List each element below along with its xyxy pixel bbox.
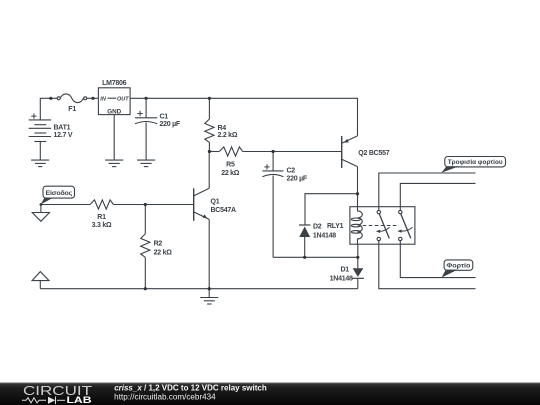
- svg-text:1N4148: 1N4148: [330, 275, 353, 282]
- resistor R2: [141, 205, 150, 289]
- transistor Q2 BC557: [342, 136, 358, 168]
- junction R4 top rail: [208, 97, 211, 100]
- svg-text:F1: F1: [68, 106, 76, 113]
- junction C1 top rail: [145, 97, 148, 100]
- CircuitLab logo: [22, 383, 92, 405]
- diode D1 1N4148: [352, 268, 364, 288]
- ground (LM7806): [105, 160, 123, 167]
- svg-text:http://circuitlab.com/cebr434: http://circuitlab.com/cebr434: [114, 393, 216, 402]
- svg-text:BAT1: BAT1: [54, 124, 71, 131]
- wire GND pin of LM7806: [113, 115, 115, 161]
- svg-text:R4: R4: [218, 125, 227, 132]
- junction fuse left: [49, 97, 52, 100]
- svg-text:D1: D1: [340, 266, 349, 273]
- svg-text:criss_x / 1,2 VDC to 12 VDC re: criss_x / 1,2 VDC to 12 VDC relay switch: [114, 384, 267, 393]
- relay dashed link: [363, 225, 399, 227]
- wire Q1 collector up to R4/R5 node: [208, 152, 210, 189]
- svg-text:220 µF: 220 µF: [287, 176, 308, 183]
- relay coil: [351, 194, 362, 245]
- svg-text:Είσοδος: Είσοδος: [46, 190, 73, 197]
- svg-text:3.3 kΩ: 3.3 kΩ: [92, 222, 112, 229]
- svg-text:LM7806: LM7806: [102, 80, 127, 87]
- wire C2 bottom to D1 node: [273, 256, 358, 258]
- wire Q2 collector down to node: [357, 167, 359, 194]
- node input terminal: [40, 203, 43, 206]
- regulator U1 LM7806 box: [98, 88, 130, 115]
- fuse F1: [57, 94, 86, 103]
- wire relay top-left contact to supply flag: [379, 173, 476, 210]
- wire R1 to Q1 base: [113, 204, 193, 206]
- svg-text:22 kΩ: 22 kΩ: [154, 250, 173, 257]
- svg-text:Φορτίο: Φορτίο: [446, 263, 470, 270]
- svg-text:Q2 BC557: Q2 BC557: [358, 150, 389, 157]
- node Τροφισία φορτίου flag: [441, 157, 505, 173]
- svg-text:D2: D2: [313, 224, 322, 231]
- wire coil bottom to D1: [357, 244, 359, 268]
- svg-text:Τροφισία φορτίου: Τροφισία φορτίου: [448, 159, 503, 166]
- svg-text:OUT: OUT: [117, 97, 129, 103]
- svg-text:R2: R2: [154, 240, 163, 247]
- resistor R4: [205, 98, 214, 151]
- junction Q2 collector / D2 / relay coil: [356, 192, 359, 195]
- ground triangle (input): [32, 205, 49, 222]
- svg-text:12.7 V: 12.7 V: [54, 132, 73, 139]
- svg-text:R1: R1: [97, 214, 106, 221]
- ground (C1): [137, 160, 155, 167]
- junction R4/R5/Q1 collector: [208, 150, 211, 153]
- junction coil bottom / D1 cathode: [356, 256, 359, 259]
- wire fuse to LM7806 IN: [87, 97, 99, 99]
- wire R5 to Q2 base: [243, 151, 342, 153]
- transistor Q1 BC547A: [194, 188, 210, 221]
- svg-text:220 µF: 220 µF: [160, 121, 181, 128]
- svg-text:C2: C2: [287, 168, 296, 175]
- capacitor C2: [262, 152, 283, 258]
- svg-text:GND: GND: [107, 109, 121, 116]
- svg-text:2.2 kΩ: 2.2 kΩ: [218, 132, 238, 139]
- wire input node to R1: [41, 204, 90, 206]
- wire relay bottom-left contact: [379, 241, 476, 289]
- wire Q1 emitter down to ground rail: [208, 219, 210, 288]
- svg-text:RLY1: RLY1: [327, 223, 344, 230]
- junction Q1 emitter ground rail: [208, 287, 211, 290]
- wire top rail from LM7806 OUT to Q2 emitter corner: [130, 98, 357, 136]
- svg-text:Q1: Q1: [211, 199, 220, 206]
- capacitor C1: [135, 98, 157, 160]
- wire relay bottom-right contact to load flag: [400, 241, 475, 278]
- node Είσοδος flag: [41, 186, 75, 204]
- junction C2 top: [272, 150, 275, 153]
- resistor R1: [90, 200, 113, 209]
- svg-text:LAB: LAB: [67, 395, 92, 405]
- svg-text:1N4148: 1N4148: [313, 233, 336, 240]
- node Φορτίο flag: [442, 260, 473, 278]
- svg-text:C1: C1: [160, 114, 169, 121]
- junction fuse right / LM7806 IN: [91, 97, 94, 100]
- ground (battery): [31, 160, 49, 167]
- relay contact pole 1: [376, 210, 390, 240]
- diode D2 1N4148: [299, 225, 310, 257]
- battery BAT1: [29, 113, 52, 160]
- ground (rail, below Q1): [200, 289, 218, 304]
- junction R1/R2/Q1 base: [144, 203, 147, 206]
- junction D2 anode bottom wire: [303, 256, 306, 259]
- wire node to D2 top: [305, 194, 358, 225]
- footer title text: [114, 384, 267, 402]
- svg-text:22 kΩ: 22 kΩ: [221, 170, 240, 177]
- relay RLY1 box: [350, 207, 415, 245]
- ground triangle (bottom left): [32, 272, 49, 289]
- svg-text:R5: R5: [226, 162, 235, 169]
- wire top rail from battery to fuse: [40, 98, 57, 120]
- svg-text:BC547A: BC547A: [211, 207, 237, 214]
- junction R2 bottom rail: [144, 287, 147, 290]
- wire IN leader inside LM7806: [108, 97, 117, 99]
- relay contact pole 2: [397, 210, 412, 240]
- resistor R5: [209, 147, 242, 156]
- wire ground rail: [40, 288, 358, 290]
- wire relay top-right contact: [400, 183, 475, 210]
